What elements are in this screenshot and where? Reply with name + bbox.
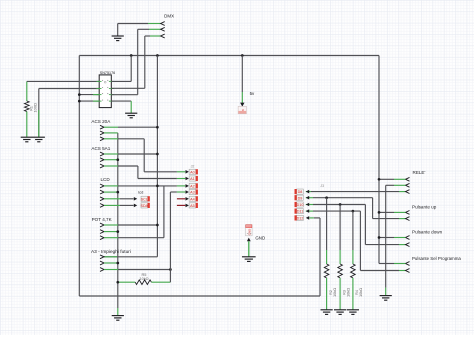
pin LCD 4: [100, 204, 104, 208]
wire 5v middle vertical: [156, 56, 158, 257]
svg-text:Pulsante up: Pulsante up: [412, 204, 437, 209]
wire 5v label stub: [241, 56, 243, 93]
svg-text:LCD: LCD: [101, 177, 111, 182]
svg-text:D10: D10: [297, 203, 304, 207]
net port SDA: [134, 204, 137, 208]
wire IC pin3 to 5v vertical: [79, 94, 99, 96]
svg-text:D8: D8: [298, 190, 303, 194]
svg-text:POT 4,7K: POT 4,7K: [92, 217, 113, 222]
svg-text:lcd: lcd: [138, 189, 143, 194]
wire ACS5A1 p2 to gnd: [104, 159, 118, 161]
pin Pulsante down 1: [406, 236, 410, 240]
wire POT p1 to 5v: [104, 224, 118, 226]
pin DMX 3: [161, 34, 165, 38]
ground R2: [321, 310, 333, 315]
wire down p1 to 5v: [394, 237, 406, 239]
svg-text:5v: 5v: [250, 91, 255, 96]
wire J3 D8 to RELE p3: [306, 191, 311, 193]
wire POT p2 to gnd: [104, 231, 118, 233]
pin POT 2: [100, 230, 104, 234]
pin J3 D8: [306, 190, 309, 194]
ground main bottom: [112, 316, 124, 321]
svg-text:SCL: SCL: [141, 197, 148, 201]
pin A3 2: [100, 261, 104, 265]
pin DMX 2: [161, 27, 165, 31]
pin U1 right leg: [109, 94, 114, 96]
wire GND stub: [248, 241, 250, 256]
svg-text:RELE': RELE': [413, 170, 426, 175]
pin ACS5A1 3: [100, 164, 104, 168]
pin ACS20A 1: [100, 125, 104, 129]
svg-text:10kΩ: 10kΩ: [345, 288, 350, 297]
resistor R2: [324, 264, 329, 278]
svg-text:100Ω: 100Ω: [33, 103, 38, 112]
wire J2 A3 stub: [170, 191, 177, 193]
wire 5v bottom rail: [79, 295, 320, 297]
wire ACS5A1 p3 to J2 A1: [104, 165, 118, 167]
wire DMX pin3: [145, 35, 150, 37]
pin J3 D12: [306, 216, 309, 220]
ground RELE: [380, 296, 392, 301]
svg-text:A5: A5: [190, 204, 195, 208]
wire ACS5A1 p1 to 5v: [104, 153, 118, 155]
wire J3 D10 net: [306, 204, 313, 206]
pin ACS20A 2: [100, 131, 104, 135]
wire second gnd stub vertical: [38, 89, 40, 137]
wire POT p3 to A2 line: [104, 237, 118, 239]
pin RELE 2: [406, 183, 410, 187]
resistor R4: [351, 264, 356, 278]
pin Sel 2: [406, 269, 410, 273]
ground R1 left: [21, 137, 33, 142]
svg-text:D11: D11: [297, 210, 304, 214]
pin Sel 1: [406, 262, 410, 266]
pin J2 A0: [186, 170, 189, 174]
pin ACS5A1 2: [100, 158, 104, 162]
wire 5v top rail: [79, 55, 379, 57]
ground R4: [347, 310, 359, 315]
pin RELE 1: [406, 177, 410, 181]
wire R3 top lead: [339, 205, 341, 251]
wire LCD p3 to SCL: [104, 198, 120, 200]
pin DMX 1: [161, 22, 165, 26]
pin J2 A1: [186, 177, 189, 181]
pin J3 D9: [306, 196, 309, 200]
wire ratsnest A5: [177, 204, 185, 206]
wire 5v right vertical: [378, 56, 380, 264]
svg-text:D9: D9: [298, 196, 303, 200]
wire ACS20A p2 to gnd: [104, 132, 118, 134]
svg-text:A1: A1: [190, 177, 195, 181]
wire IC right pin3 to DMX2: [111, 94, 137, 96]
pin U1 right leg: [109, 100, 114, 102]
pin J2 A4: [186, 197, 189, 201]
resistor R1: [25, 101, 30, 112]
wire R2 bottom lead: [326, 278, 328, 310]
wire RELE p2 to gnd: [394, 184, 406, 186]
ground R1 right: [33, 137, 45, 142]
wire DMX pin1: [118, 23, 148, 25]
pin LCD 1: [100, 184, 104, 188]
wire up p1 to 5v: [394, 211, 406, 213]
wire IC right pin2 to DMX3: [111, 87, 145, 89]
net port GND: [246, 225, 253, 236]
pin U1 right leg: [109, 80, 114, 82]
wire IC pin4 to 5v vertical: [79, 100, 99, 102]
wire J3 D9 net: [306, 197, 313, 199]
wire R2 top lead: [326, 198, 328, 250]
pin J2 A5: [186, 204, 189, 208]
pin POT 3: [100, 236, 104, 240]
node junction 5v label stub: [241, 54, 244, 57]
wire LCD p2 to gnd: [104, 191, 118, 193]
pin U1 right leg: [109, 88, 114, 90]
pin A3 1: [100, 255, 104, 259]
ground DMX: [112, 36, 124, 41]
pin U1 left leg: [97, 94, 102, 96]
pin U1 left leg: [97, 100, 102, 102]
wire R1 net to IC pin1: [27, 80, 99, 82]
pin J2 A3: [186, 190, 189, 194]
wire J2 A3 vertical: [169, 192, 171, 282]
svg-text:J3: J3: [320, 184, 324, 188]
svg-text:SN75176: SN75176: [100, 71, 115, 75]
wire J3 D11 net: [306, 210, 313, 212]
node junction 5v vertical: [156, 54, 159, 57]
ground R3: [334, 310, 346, 315]
wire DMX pin2: [138, 28, 149, 30]
wire to IC pin2: [39, 88, 99, 90]
pin RELE 3: [406, 190, 410, 194]
svg-text:A3 - Impieghi futuri: A3 - Impieghi futuri: [91, 249, 131, 255]
pin U1 left leg: [97, 88, 102, 90]
svg-text:ACS 20A: ACS 20A: [91, 119, 111, 124]
ground IC: [125, 113, 137, 118]
ground GND port: [242, 257, 256, 262]
svg-text:10kΩ: 10kΩ: [139, 276, 148, 281]
wire R4 top lead: [352, 211, 354, 250]
pin marks U1: [102, 80, 108, 101]
wire 5v left vertical: [78, 56, 80, 297]
pin LCD 3: [100, 197, 104, 201]
svg-text:SDA: SDA: [141, 204, 149, 208]
wire sel p1 to 5v: [394, 263, 406, 265]
svg-text:10kΩ: 10kΩ: [332, 288, 337, 297]
wire IC right pin4 to ground: [111, 100, 131, 102]
pin Pulsante up 1: [406, 211, 410, 215]
pin J2 A2: [186, 184, 189, 188]
resistor R5: [135, 280, 151, 285]
svg-text:GND: GND: [255, 235, 265, 240]
op-amp U1 SN75176 body: [99, 75, 111, 108]
net port 5v: [240, 103, 244, 107]
pin Pulsante up 2: [406, 217, 410, 221]
pin POT 1: [100, 223, 104, 227]
pin J3 D11: [306, 209, 309, 213]
pin LCD 2: [100, 190, 104, 194]
wire IC right pin1 up to rail: [111, 80, 131, 82]
svg-text:DMX: DMX: [164, 13, 174, 18]
svg-text:A2: A2: [190, 185, 195, 189]
svg-text:10kΩ: 10kΩ: [358, 288, 363, 297]
wire R4 bottom lead: [352, 278, 354, 310]
wire ACS20A p1 to 5v: [104, 126, 118, 128]
wire R5 right lead: [151, 281, 170, 283]
pin A3 3: [100, 268, 104, 272]
svg-text:J2: J2: [191, 164, 195, 168]
svg-text:A3: A3: [190, 191, 195, 195]
wire R1 bottom lead: [26, 112, 28, 137]
pin ACS20A 3: [100, 137, 104, 141]
pin Pulsante down 2: [406, 243, 410, 247]
wire ACS20A p3 to J2 A0: [104, 138, 118, 140]
net port SCL: [134, 197, 137, 201]
wire LCD p1 / A2 line: [104, 185, 118, 187]
wire LCD p4 to SDA: [104, 204, 120, 206]
pin U1 left leg: [97, 80, 102, 82]
node junction 5v/IC pin: [130, 54, 133, 57]
wire A3 p2 to gnd: [104, 262, 118, 264]
wire R1 top lead: [26, 81, 28, 101]
svg-text:ACS 5A1: ACS 5A1: [91, 146, 110, 151]
wire R3 bottom lead: [339, 278, 341, 310]
svg-text:A0: A0: [190, 170, 195, 174]
svg-text:D12: D12: [297, 217, 304, 221]
wire R5 left lead: [118, 281, 135, 283]
svg-text:Pulsante down: Pulsante down: [412, 229, 443, 234]
pin ACS5A1 1: [100, 152, 104, 156]
svg-text:GND: GND: [248, 229, 252, 235]
wire A3 p3 to J2 A3 net: [104, 269, 118, 271]
wire gnd vertical: [117, 133, 119, 308]
wire 5v rail riser to J3 D12: [319, 218, 321, 296]
pin J3 D10: [306, 203, 309, 207]
svg-text:A4: A4: [190, 197, 195, 201]
wire RELE p1 to 5v: [394, 178, 406, 180]
svg-text:Pulsante Sel Programma: Pulsante Sel Programma: [412, 256, 461, 261]
wire ratsnest A4: [177, 198, 185, 200]
resistor R3: [338, 264, 343, 278]
